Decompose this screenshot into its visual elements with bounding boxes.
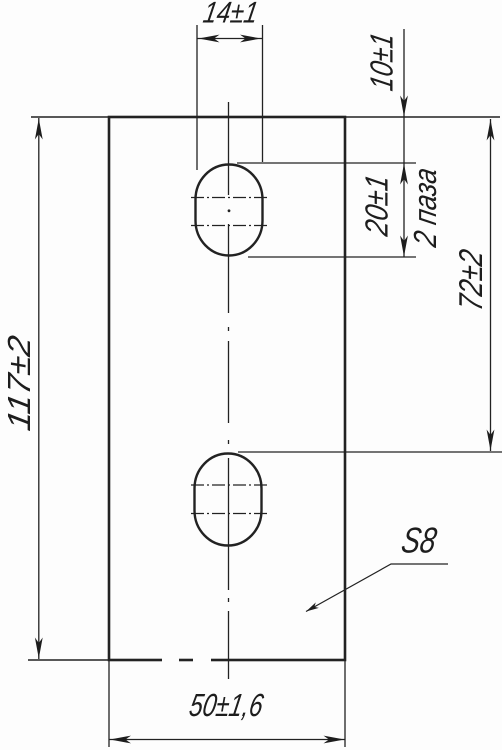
dimension 14±1 extension line right	[262, 25, 264, 162]
slot 1 bottom extension line	[248, 256, 416, 258]
dimension 50±1,6 extension line right	[344, 660, 346, 747]
dimension 14±1 arrow left	[199, 35, 220, 43]
dimension 14±1 line	[197, 38, 263, 40]
svg-text:50±1,6: 50±1,6	[187, 687, 266, 723]
svg-text:117±2: 117±2	[1, 333, 37, 433]
svg-text:2 паза: 2 паза	[407, 165, 443, 250]
dimension 50±1,6 arrow left	[110, 736, 131, 744]
plate outline	[109, 117, 345, 660]
slot 2 horizontal centerline upper	[191, 484, 268, 486]
dimension 50±1,6 line	[109, 739, 346, 741]
vertical centerline	[228, 102, 230, 679]
dimension 10±1 / 20±1 line	[403, 29, 405, 257]
dimension 117±2 line	[38, 118, 40, 659]
dimension 14±1 extension line left	[196, 25, 198, 170]
slot 2 (lower obround)	[195, 454, 262, 546]
leader line S8	[306, 564, 448, 612]
dimension 20±1 arrow down	[400, 236, 408, 257]
dimension 117±2 arrow down	[35, 638, 43, 659]
slot 2 horizontal centerline lower	[191, 513, 268, 515]
svg-text:S8: S8	[399, 520, 440, 561]
dimension 117±2 arrow up	[35, 119, 43, 140]
svg-text:14±1: 14±1	[201, 0, 261, 29]
dimension 72±2 arrow down	[487, 430, 495, 451]
dimension 50±1,6 extension line left	[108, 660, 110, 747]
dimension 10±1 arrow down	[400, 96, 408, 117]
dimension 72±2 line	[490, 119, 492, 451]
slot 1 top extension line	[237, 162, 416, 164]
top edge extension line left	[31, 116, 109, 118]
leader arrow S8	[306, 602, 319, 611]
svg-text:72±2: 72±2	[453, 247, 490, 313]
top edge extension line right	[345, 116, 500, 118]
slot 2 top extension line	[238, 451, 502, 453]
slot 1 horizontal centerline upper	[191, 197, 269, 199]
slot 1 center dot	[228, 209, 231, 212]
svg-text:20±1: 20±1	[359, 172, 395, 239]
svg-text:10±1: 10±1	[364, 30, 400, 93]
slot 1 (upper obround)	[196, 165, 263, 256]
bottom edge extension line left	[28, 659, 109, 661]
dimension 14±1 arrow right	[240, 35, 261, 43]
dimension 50±1,6 arrow right	[324, 736, 345, 744]
dimension 72±2 arrow up	[487, 120, 495, 141]
bottom edge centerline gaps	[162, 657, 179, 664]
slot 1 horizontal centerline lower	[191, 225, 269, 227]
dimension 20±1 arrow up	[400, 164, 408, 185]
